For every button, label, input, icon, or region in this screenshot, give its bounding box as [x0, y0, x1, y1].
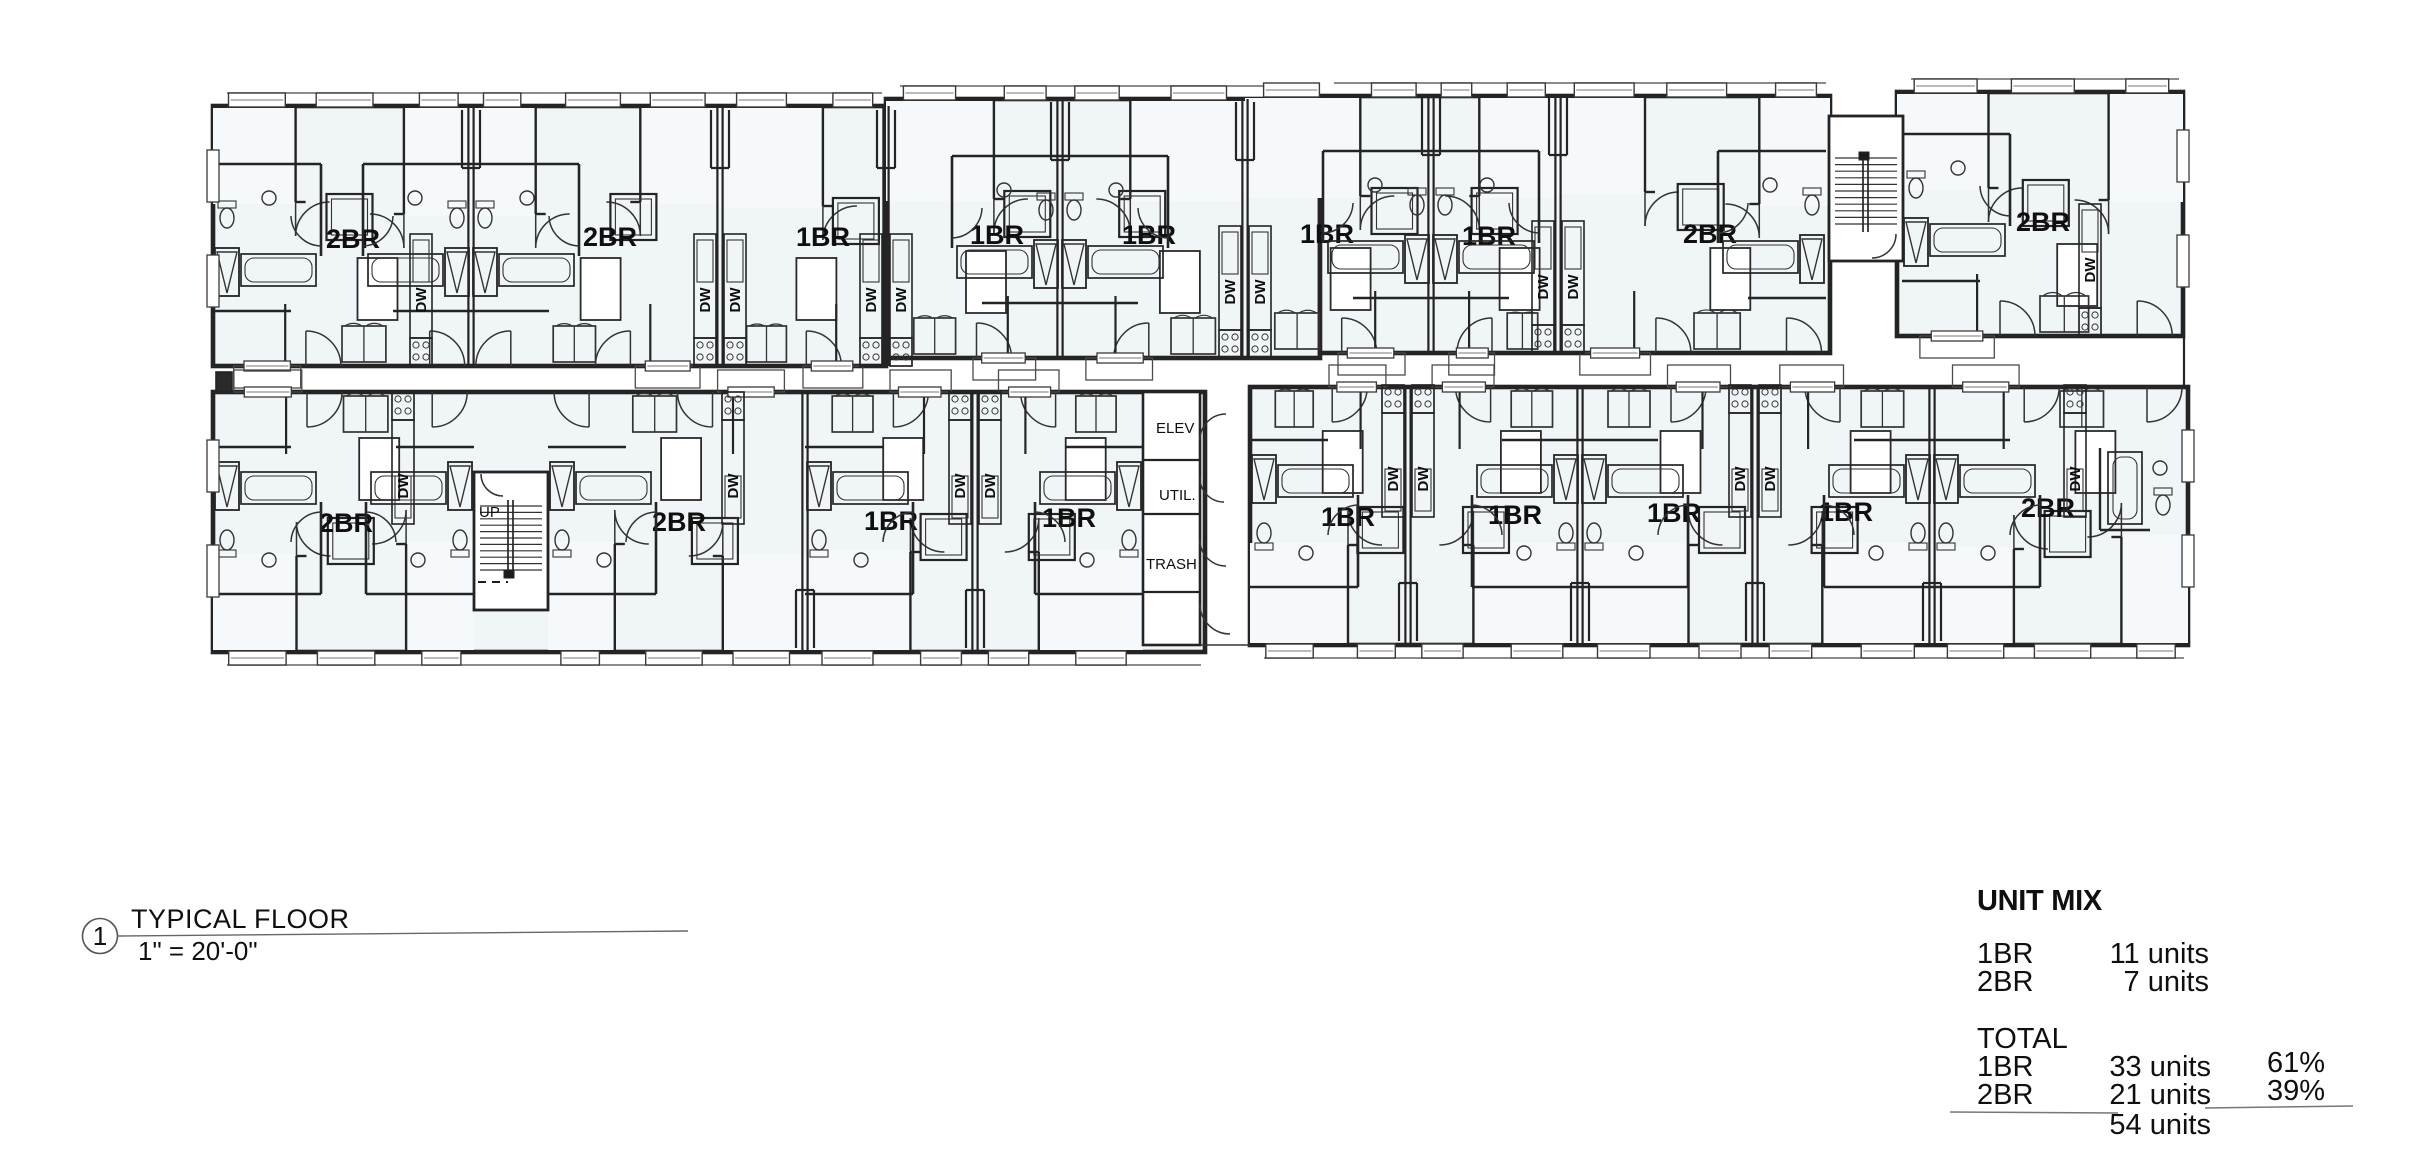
svg-text:DW: DW [727, 287, 744, 313]
top unit 1 2BR interior [213, 108, 296, 204]
bath fixtures right of divider x=1932 (bottom) [2039, 495, 2042, 587]
svg-text:39%: 39% [2267, 1075, 2325, 1107]
bath fixtures right of divider x=471 [578, 164, 581, 256]
right 2BR kitchen counter [2079, 204, 2101, 308]
right 2BR private bath cluster [2009, 134, 2012, 226]
left chimney block [216, 372, 232, 392]
2BR bath right of stair [655, 502, 658, 594]
svg-text:DW: DW [725, 473, 742, 499]
svg-text:54 units: 54 units [2109, 1109, 2211, 1141]
kitchen counters left of divider x=720 [694, 234, 716, 338]
svg-text:DW: DW [413, 287, 430, 313]
kitchen counters left of divider x=1408 (bottom) [1382, 413, 1404, 517]
stair center rail bottom-left [507, 500, 509, 576]
bottom unit 5 1BR interior [1250, 543, 1348, 643]
closet pair at divider x=805 (bottom) [795, 590, 797, 648]
svg-text:TRASH: TRASH [1146, 556, 1197, 573]
top wing segment 3 floor slab [1320, 96, 1830, 353]
2BR left of stair private bath cluster [1717, 151, 1720, 243]
svg-text:UNIT MIX: UNIT MIX [1977, 885, 2103, 917]
svg-text:1BR: 1BR [1042, 503, 1096, 533]
top unit 9 2BR interior [1897, 94, 1989, 190]
kitchen counters right of divider x=720 [724, 234, 746, 338]
svg-text:2BR: 2BR [2016, 207, 2070, 237]
kitchen counters right of divider x=1245 [1249, 226, 1271, 330]
bath fixtures left of divider x=1431 [1322, 151, 1325, 243]
svg-text:ELEV: ELEV [1156, 420, 1194, 437]
svg-text:DW: DW [2082, 257, 2099, 283]
bottom wing segment 2 floor slab [1250, 387, 2188, 645]
corridor sill between wings [1200, 644, 1250, 646]
bottom wing unit divider wall x=805 [801, 392, 803, 652]
kitchen counters right of divider x=1755 (bottom) [1759, 413, 1781, 517]
bottom-right 2BR east bath: vertical tub [2108, 452, 2142, 524]
svg-text:DW: DW [982, 473, 999, 499]
svg-text:DW: DW [1252, 279, 1269, 305]
kitchen counters left of divider x=975 (bottom) [949, 420, 971, 524]
core door arcs [1200, 414, 1226, 440]
kitchen counters left of divider x=886 [860, 234, 882, 338]
svg-text:1BR: 1BR [796, 222, 850, 252]
svg-text:DW: DW [1222, 279, 1239, 305]
bottom unit 1 2BR interior [213, 554, 297, 650]
west gable windows bottom wing [207, 440, 219, 492]
second bottom 2BR kitchen [722, 420, 744, 524]
bottom right 2BR kitchen [2064, 413, 2086, 517]
bath fixtures left of divider x=1060 [951, 156, 954, 248]
top wing unit divider wall x=1431 [1427, 96, 1429, 353]
svg-text:1BR: 1BR [1647, 498, 1701, 528]
svg-text:1BR: 1BR [1488, 500, 1542, 530]
top unit 8 2BR interior [1558, 98, 1645, 194]
svg-text:DW: DW [1732, 466, 1749, 492]
svg-text:1: 1 [93, 921, 107, 951]
closet pair at divider x=471 [461, 110, 463, 168]
top unit 5 1BR interior [1130, 101, 1245, 201]
bottom wing unit divider wall x=1932 [1928, 387, 1930, 645]
svg-text:7 units: 7 units [2124, 966, 2209, 998]
kitchen counters right of divider x=975 (bottom) [979, 420, 1001, 524]
svg-text:2BR: 2BR [1683, 219, 1737, 249]
closet pair at divider x=1245 [1235, 102, 1237, 160]
bath fixtures left of divider x=471 [362, 164, 365, 256]
top wing unit divider wall x=720 [716, 106, 718, 366]
closet pair at divider x=1932 (bottom) [1922, 583, 1924, 641]
stairwell bottom-left enclosure [474, 472, 548, 610]
bath fixtures right of divider x=1580 (bottom) [1687, 495, 1690, 587]
east gable windows bottom wing [2182, 430, 2194, 482]
bottom 1BR bath at core wall [1034, 502, 1037, 594]
bottom wing segment 1 floor slab [213, 392, 1205, 652]
table sum rule left [1950, 1112, 2118, 1113]
bottom wing unit divider wall x=1755 [1751, 387, 1753, 645]
bottom wing unit divider wall x=975 [971, 392, 973, 652]
bottom-right 2BR east bath wall [2099, 448, 2101, 530]
svg-text:DW: DW [1415, 466, 1432, 492]
kitchen counters left of divider x=1558 [1532, 221, 1554, 325]
top unit 4 1BR interior [886, 101, 994, 201]
top unit 2 2BR interior [640, 108, 720, 204]
bath cluster of first right-building 1BR at west wall [1357, 495, 1360, 587]
top wing segment 2 floor slab [886, 99, 1320, 358]
stairwell top-right enclosure [1829, 116, 1903, 261]
bottom unit 8 1BR interior [1822, 543, 1932, 643]
bottom-left 2BR entry bath at west wall [320, 502, 323, 594]
svg-text:DW: DW [863, 287, 880, 313]
elevator core walls [1143, 392, 1200, 645]
top wing unit divider wall x=471 [467, 106, 469, 366]
kitchen counters right of divider x=1558 [1562, 221, 1584, 325]
svg-text:DW: DW [1762, 466, 1779, 492]
bottom wing unit divider wall x=1580 [1576, 387, 1578, 645]
top unit 3 1BR interior [720, 108, 823, 208]
top wing roof overhang line [227, 92, 882, 94]
stair start post bottom-left [504, 570, 514, 578]
svg-text:2BR: 2BR [1977, 1079, 2033, 1111]
closet pair at divider x=1558 [1548, 97, 1550, 155]
kitchen counters right of divider x=886 [890, 234, 912, 338]
bath fixtures right of divider x=805 (bottom) [912, 502, 915, 594]
svg-text:DW: DW [1385, 466, 1402, 492]
stair treads top-right [1835, 157, 1897, 159]
title leader line [118, 931, 688, 936]
stair start post top-right [1859, 152, 1869, 160]
svg-text:UP: UP [479, 504, 500, 521]
bath fixtures left of divider x=1580 (bottom) [1471, 495, 1474, 587]
svg-text:UTIL.: UTIL. [1159, 487, 1196, 504]
west gable windows top wing [207, 150, 219, 202]
kitchen counters right of divider x=1408 (bottom) [1412, 413, 1434, 517]
table sum rule right [2205, 1106, 2353, 1108]
bottom-right 2BR east bath: toilet [2156, 495, 2170, 515]
svg-text:1BR: 1BR [1462, 221, 1516, 251]
bottom-left 2BR bath cluster near stair [365, 502, 368, 594]
closet pair at divider x=1755 (bottom) [1745, 583, 1747, 641]
top wing unit divider wall x=1245 [1241, 99, 1243, 358]
svg-text:1BR: 1BR [864, 506, 918, 536]
svg-text:DW: DW [1565, 274, 1582, 300]
closet pair at divider x=1431 [1421, 97, 1423, 155]
bottom unit 9 2BR interior [1932, 547, 2014, 643]
closet pair at divider x=1580 (bottom) [1570, 583, 1572, 641]
stair center rail top-right [1862, 155, 1864, 232]
svg-text:DW: DW [1535, 274, 1552, 300]
top wing segment 1 floor slab [213, 106, 886, 366]
bottom-left 2BR kitchen [392, 420, 414, 524]
stair treads bottom-left [480, 505, 542, 507]
closet pair at divider x=1408 (bottom) [1398, 583, 1400, 641]
top wing unit divider wall x=1558 [1554, 96, 1556, 353]
svg-text:DW: DW [395, 473, 412, 499]
svg-text:21 units: 21 units [2109, 1079, 2211, 1111]
top unit 7 1BR interior [1479, 98, 1558, 198]
bottom wing unit divider wall x=1408 [1404, 387, 1406, 645]
svg-text:1" = 20'-0": 1" = 20'-0" [138, 936, 258, 966]
bath fixtures right of divider x=1431 [1538, 151, 1541, 243]
stair dashed flight break [478, 581, 508, 583]
title bubble circle 1 [83, 919, 118, 954]
top wing unit divider wall x=1060 [1056, 99, 1058, 358]
leftmost top 2BR entry bath at west wall [320, 164, 323, 256]
closet pair at divider x=886 [876, 110, 878, 168]
bottom unit 6 1BR interior [1473, 543, 1580, 643]
stair entry door arc bottom-left [481, 474, 503, 496]
east gable windows top wing [2177, 130, 2189, 182]
closet pair at divider x=720 [710, 110, 712, 168]
svg-text:2BR: 2BR [652, 507, 706, 537]
closet pair at divider x=1060 [1050, 102, 1052, 160]
bottom unit 2 2BR interior [723, 554, 805, 650]
bottom wing outer sill line [227, 664, 1201, 666]
connector wall right end [2183, 336, 2185, 388]
stair door arc top-right [1872, 234, 1896, 258]
svg-text:1BR: 1BR [1819, 497, 1873, 527]
elevator room divider walls [1143, 459, 1200, 461]
svg-text:2BR: 2BR [583, 222, 637, 252]
bath fixtures left of divider x=1932 (bottom) [1823, 495, 1826, 587]
svg-text:2BR: 2BR [1977, 966, 2033, 998]
bottom unit 4 1BR interior [1039, 550, 1143, 650]
top wing unit divider wall x=886 [882, 106, 884, 366]
bottom unit 7 1BR interior [1580, 543, 1689, 643]
svg-text:2BR: 2BR [326, 224, 380, 254]
leftmost top 2BR kitchen counter [410, 234, 432, 338]
closet pair at divider x=975 (bottom) [965, 590, 967, 648]
svg-text:DW: DW [2067, 466, 2084, 492]
bottom unit 3 1BR interior [805, 550, 910, 650]
bath fixtures right of divider x=1060 [1167, 156, 1170, 248]
bottom-right 2BR east bath: sink [2153, 461, 2167, 475]
svg-text:DW: DW [893, 287, 910, 313]
top wing segment 4 floor slab [1897, 92, 2183, 336]
kitchen counters left of divider x=1245 [1219, 226, 1241, 330]
kitchen counters left of divider x=1755 (bottom) [1729, 413, 1751, 517]
top unit 6 1BR interior [1245, 98, 1360, 198]
svg-text:DW: DW [952, 473, 969, 499]
svg-text:DW: DW [697, 287, 714, 313]
svg-text:TYPICAL FLOOR: TYPICAL FLOOR [131, 904, 350, 934]
